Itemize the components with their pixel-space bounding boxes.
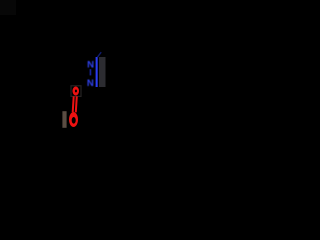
double bond O1=O2 line a — [73, 96, 74, 112]
gray bar left of lower O — [62, 111, 66, 128]
corner swatch — [0, 0, 16, 15]
gray band right of N column — [99, 57, 106, 87]
bond N1-N2 — [90, 69, 92, 75]
svg-text:N: N — [87, 60, 94, 71]
atom O2 — [69, 112, 78, 127]
atom O1 — [73, 87, 80, 96]
double bond O1=O2 line b — [76, 96, 77, 112]
bond stub top right — [97, 52, 101, 57]
svg-text:N: N — [87, 78, 94, 89]
bond line N column vertical — [96, 57, 98, 87]
label plate upper O — [71, 86, 81, 97]
